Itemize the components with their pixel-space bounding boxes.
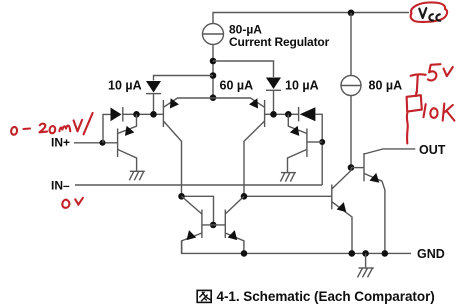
current source I2 80uA: [341, 76, 362, 96]
ground symbol G3: [358, 253, 374, 277]
ground symbol G1: [129, 171, 145, 180]
wire GND rail: [182, 241, 411, 254]
wire top Vcc rail: [213, 13, 409, 24]
diode D3 clamp left: [111, 107, 123, 122]
node Q2 base / D1: [150, 111, 157, 118]
wire OUT: [383, 148, 415, 150]
svg-text:10 µA: 10 µA: [108, 79, 142, 93]
svg-text:OUT: OUT: [419, 143, 446, 157]
diode D1 10uA left: [146, 81, 161, 114]
wire regulator output vertical: [212, 45, 214, 99]
node tap left: [210, 72, 217, 79]
red annotation Vcc circle: [411, 2, 448, 22]
svg-text:Current Regulator: Current Regulator: [229, 35, 330, 49]
node Q6 emitter rail: [241, 250, 248, 257]
red annotation 0-20mV: [11, 113, 92, 135]
svg-text:60 µA: 60 µA: [220, 79, 254, 93]
svg-text:GND: GND: [417, 247, 445, 261]
node Q7 emitter rail: [349, 250, 356, 257]
wire D4 anode to IN- riser: [315, 114, 322, 185]
red annotation 10K resistor: [407, 92, 455, 143]
transistor Q7 (driver NPN): [332, 168, 352, 254]
wire to diode D2: [213, 61, 274, 77]
svg-text:IN+: IN+: [51, 136, 70, 150]
node Q8 base: [348, 164, 355, 171]
node Q4 base junction: [319, 139, 325, 145]
node ground stub rail: [362, 250, 369, 257]
transistor Q4 (IN- input PNP): [288, 114, 323, 172]
svg-text:80 µA: 80 µA: [369, 79, 403, 93]
transistor Q8 (output NPN): [351, 149, 385, 254]
svg-text:4-1. Schematic (Each Comparato: 4-1. Schematic (Each Comparator): [217, 289, 435, 304]
wire mirror base drop: [182, 196, 214, 225]
diode D4 clamp right: [299, 107, 316, 122]
wire IN- input: [75, 184, 322, 186]
annotation Vcc text: [419, 8, 440, 21]
wire mirror output to Q7 base: [244, 195, 332, 197]
transistor Q1 (IN+ input PNP): [118, 114, 137, 170]
node Q8 emitter rail: [382, 250, 389, 257]
transistor Q5 (mirror left NPN): [182, 196, 202, 253]
wire mirror bases: [202, 224, 225, 226]
node mirror base: [210, 222, 217, 229]
node mirror right: [241, 193, 248, 200]
node emitter common: [210, 94, 217, 101]
node IN+ junction: [100, 140, 106, 146]
diode D2 10uA right: [266, 78, 281, 115]
node tap right: [210, 58, 217, 65]
svg-text:10 µA: 10 µA: [285, 79, 319, 93]
ground symbol G2: [280, 173, 296, 182]
node top rail junction: [348, 10, 355, 17]
svg-text:IN–: IN–: [51, 179, 70, 193]
current regulator U1 80-uA: [202, 24, 224, 45]
wire base row left: [123, 113, 164, 115]
wire 80uA source vertical: [350, 13, 352, 76]
wire source to Q8 base node: [350, 96, 352, 168]
wire riser to clamp diode D3: [103, 114, 111, 142]
wire IN+ input: [74, 142, 118, 144]
node Q1 emitter: [133, 111, 140, 118]
node Q4 emitter: [285, 111, 292, 118]
wire to diode D1: [154, 76, 214, 81]
wire base row right: [265, 113, 299, 115]
red annotation or: [62, 198, 83, 208]
transistor Q2 (left darlington PNP): [163, 96, 213, 196]
node Q3 base / D2: [270, 111, 277, 118]
transistor Q3 (right darlington PNP): [213, 96, 265, 196]
red annotation 5v supply: [411, 64, 453, 92]
node mirror left: [178, 193, 185, 200]
caption figure glyph: [197, 290, 211, 302]
transistor Q6 (mirror right NPN): [225, 196, 244, 253]
